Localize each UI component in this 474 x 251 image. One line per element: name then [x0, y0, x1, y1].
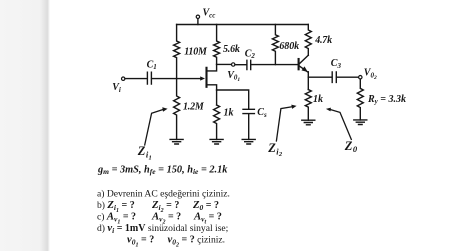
- node Vi terminal: [122, 77, 125, 80]
- svg-text:Zi2: Zi2: [267, 141, 283, 158]
- arrow Zi2 pointer: [276, 107, 292, 141]
- svg-text:Z0: Z0: [344, 139, 358, 154]
- svg-text:gm = 3mS, hfe = 150, hie = 2.1: gm = 3mS, hfe = 150, hie = 2.1k: [97, 164, 228, 176]
- wire emitter diagonal with arrow: [300, 66, 308, 72]
- svg-text:C1: C1: [147, 59, 157, 71]
- wire emitter node: [307, 72, 309, 90]
- resistor R4 680k: [272, 25, 278, 65]
- svg-text:C3: C3: [331, 58, 342, 70]
- node Vcc terminal: [196, 15, 199, 24]
- wire Vi to C1: [125, 78, 147, 80]
- resistor R3 5.6k: [214, 25, 220, 65]
- svg-text:v01 = ?v02 = ? çiziniz.: v01 = ?v02 = ? çiziniz.: [127, 234, 225, 249]
- wire drain node to V01: [217, 63, 232, 65]
- svg-text:d) vi = 1mV sinüzoidal sinyal: d) vi = 1mV sinüzoidal sinyal ise;: [97, 222, 228, 235]
- svg-text:a) Devrenin AC eşdeğerini çizi: a) Devrenin AC eşdeğerini çiziniz.: [97, 189, 230, 200]
- svg-text:Ry = 3.3k: Ry = 3.3k: [367, 94, 406, 106]
- transistor Q1 JFET channel bar: [205, 68, 207, 87]
- arrow Zi1 pointer: [145, 109, 164, 145]
- ground under Ry: [354, 120, 367, 125]
- wire drain: [207, 64, 217, 71]
- svg-text:1k: 1k: [313, 94, 323, 105]
- wire source: [207, 85, 217, 90]
- wire Cs to ground: [248, 114, 250, 140]
- wire collector diagonal: [300, 55, 309, 63]
- wire V01 to C2: [235, 64, 247, 66]
- svg-text:Vi: Vi: [112, 82, 121, 94]
- resistor R2 1.2M: [174, 79, 180, 140]
- svg-text:1.2M: 1.2M: [183, 102, 205, 113]
- wire C3 to V02: [337, 76, 359, 78]
- node V01 terminal: [232, 63, 235, 66]
- resistor R1 110M: [174, 25, 180, 79]
- wire C2 to base: [251, 64, 298, 66]
- ground under Cs: [242, 139, 255, 144]
- resistor R6 4.7k: [305, 25, 311, 56]
- resistor R8 Ry: [357, 79, 363, 120]
- wire C1 to gate with arrow: [152, 78, 201, 80]
- svg-text:5.6k: 5.6k: [223, 44, 240, 55]
- capacitor C3: [332, 72, 336, 82]
- svg-text:V01: V01: [227, 70, 240, 83]
- svg-text:C2: C2: [245, 48, 256, 60]
- wire top supply rail: [177, 24, 309, 26]
- svg-text:Vcc: Vcc: [203, 8, 216, 20]
- svg-text:680k: 680k: [279, 41, 299, 52]
- resistor R5 1k source: [214, 105, 220, 139]
- ground under 1.2M: [170, 139, 183, 144]
- arrow Z0 pointer: [331, 110, 351, 140]
- capacitor Cs: [243, 109, 254, 113]
- svg-text:Zi1: Zi1: [137, 144, 152, 161]
- wire source node down to 1k: [216, 90, 218, 105]
- svg-text:Cs: Cs: [257, 107, 267, 119]
- svg-text:4.7k: 4.7k: [314, 35, 332, 46]
- ground under 1k emitter: [302, 120, 315, 125]
- node V02 terminal: [359, 76, 362, 79]
- svg-text:V02: V02: [364, 68, 377, 81]
- capacitor C2: [247, 60, 251, 69]
- ground under 1k: [210, 139, 223, 144]
- svg-text:110M: 110M: [184, 47, 208, 58]
- capacitor C1: [147, 72, 151, 84]
- resistor R7 1k emitter: [305, 90, 311, 121]
- wire emitter to C3: [308, 76, 332, 78]
- wire source node to Cs: [217, 90, 249, 109]
- svg-text:1k: 1k: [224, 108, 234, 119]
- transistor Q2 BJT base bar: [298, 59, 300, 69]
